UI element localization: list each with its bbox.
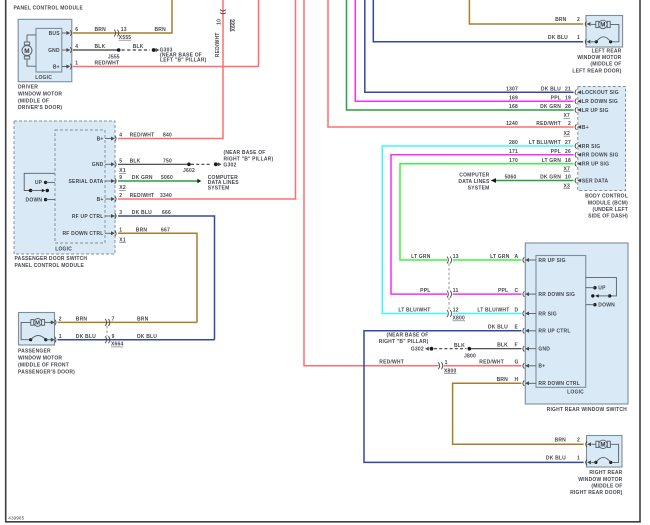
wire DK GRN 168 to BCM LR UP SIG xyxy=(347,0,574,110)
driver motor pin 6 connector xyxy=(62,27,78,36)
svg-text:WINDOW MOTOR: WINDOW MOTOR xyxy=(578,477,622,483)
svg-text:PPL: PPL xyxy=(551,96,561,102)
wire RED/WHT from driver B+ pin to top xyxy=(73,0,259,67)
svg-text:RR SIG: RR SIG xyxy=(538,311,556,317)
passenger module caption xyxy=(15,256,88,269)
svg-text:B+: B+ xyxy=(582,125,589,131)
svg-text:SERIAL DATA: SERIAL DATA xyxy=(69,179,104,185)
svg-text:RED/WHT: RED/WHT xyxy=(479,360,504,366)
svg-text:MODULE (BCM): MODULE (BCM) xyxy=(588,200,628,206)
BCM pin 2 B+ xyxy=(563,124,588,137)
svg-text:RR UP SIG: RR UP SIG xyxy=(582,162,609,168)
right rear motor pin 2 connector xyxy=(555,437,591,447)
wire RED/WHT 840 labels xyxy=(130,133,172,139)
right rear motor symbol M xyxy=(591,440,618,464)
svg-text:GND: GND xyxy=(48,48,60,54)
wire DK BLU RR UP CTRL row E to right rear motor xyxy=(364,325,584,463)
right rear window motor box xyxy=(587,436,623,468)
svg-text:X3: X3 xyxy=(563,183,570,189)
wire DK GRN 5060 serial data to computer data lines xyxy=(118,175,201,183)
BCM box xyxy=(578,87,626,191)
computer data lines system text right xyxy=(458,173,490,192)
BCM pin 27 RR SIG xyxy=(575,143,600,150)
svg-text:BRN: BRN xyxy=(555,437,567,443)
svg-text:X7: X7 xyxy=(563,167,570,173)
wire BLK row F GND xyxy=(454,343,521,350)
svg-text:SER DATA: SER DATA xyxy=(582,178,609,184)
BCM pin 28 LR UP SIG xyxy=(563,107,608,119)
left rear window motor box xyxy=(586,16,623,48)
right rear switch pin H connector xyxy=(523,381,580,388)
svg-text:1: 1 xyxy=(577,35,580,41)
svg-text:RED/WHT: RED/WHT xyxy=(95,61,120,67)
wire BRN to left rear motor pin 2 xyxy=(469,0,583,24)
svg-text:DOWN: DOWN xyxy=(26,197,43,203)
svg-text:BUS: BUS xyxy=(49,31,61,37)
svg-text:LT BLU/WHT: LT BLU/WHT xyxy=(529,140,561,146)
right rear switch pin F connector xyxy=(523,346,550,353)
svg-text:X2: X2 xyxy=(119,185,126,191)
svg-text:DOWN: DOWN xyxy=(598,303,615,309)
svg-text:840: 840 xyxy=(163,133,172,139)
svg-text:LOGIC: LOGIC xyxy=(35,75,52,81)
svg-text:RR DOWN SIG: RR DOWN SIG xyxy=(582,153,619,159)
right rear switch pin A connector xyxy=(523,257,566,264)
svg-text:12: 12 xyxy=(453,307,459,313)
svg-text:LR UP SIG: LR UP SIG xyxy=(582,108,609,114)
UP/DOWN switch of right rear switch xyxy=(586,278,617,309)
left rear motor pin 1 connector xyxy=(585,39,590,45)
svg-text:2: 2 xyxy=(577,17,580,23)
dashed BLK wire from G302 to J800 xyxy=(434,348,467,350)
svg-text:X664: X664 xyxy=(111,342,123,348)
svg-text:PPL: PPL xyxy=(498,288,508,294)
svg-text:UP: UP xyxy=(35,180,43,186)
left rear motor caption xyxy=(572,49,621,75)
svg-text:DK BLU: DK BLU xyxy=(76,334,96,340)
passenger motor symbol M xyxy=(21,319,51,342)
right rear switch pin C connector xyxy=(523,291,575,298)
driver window motor module box xyxy=(18,19,72,81)
svg-text:LOCKOUT SIG: LOCKOUT SIG xyxy=(582,90,619,96)
svg-text:171: 171 xyxy=(509,149,518,155)
ground G302 left xyxy=(214,150,274,168)
svg-text:X7: X7 xyxy=(563,113,570,119)
svg-text:2: 2 xyxy=(568,121,571,127)
svg-text:PPL: PPL xyxy=(420,288,430,294)
svg-text:3340: 3340 xyxy=(160,193,172,199)
svg-text:BRN: BRN xyxy=(155,27,167,33)
svg-text:5060: 5060 xyxy=(161,175,173,181)
svg-text:BRN: BRN xyxy=(555,17,567,23)
dashed BLK wire to ground G303 xyxy=(122,49,151,51)
wire LT BLU/WHT 280 BCM RR SIG to switch D xyxy=(382,140,573,313)
svg-text:LT GRN: LT GRN xyxy=(490,254,510,260)
right rear window switch box xyxy=(525,243,628,404)
svg-text:7: 7 xyxy=(112,317,115,323)
driver motor pin 1 connector xyxy=(62,61,78,70)
svg-text:BLK: BLK xyxy=(130,159,141,165)
passenger module pin 9 connector xyxy=(105,175,126,191)
svg-text:(NEAR BASE OF: (NEAR BASE OF xyxy=(386,332,428,338)
svg-text:LEFT "B" PILLAR): LEFT "B" PILLAR) xyxy=(160,58,207,64)
svg-text:RIGHT REAR DOOR): RIGHT REAR DOOR) xyxy=(570,490,622,496)
svg-text:BLK: BLK xyxy=(133,44,144,50)
svg-text:D: D xyxy=(515,307,519,313)
svg-text:C: C xyxy=(515,288,519,294)
svg-text:DRIVER'S DOOR): DRIVER'S DOOR) xyxy=(18,105,62,111)
svg-text:COMPUTER: COMPUTER xyxy=(459,173,489,179)
svg-text:DK BLU: DK BLU xyxy=(488,325,508,331)
svg-text:1307: 1307 xyxy=(506,87,518,93)
svg-text:DK BLU: DK BLU xyxy=(132,210,152,216)
BCM caption xyxy=(585,194,628,220)
svg-text:BRN: BRN xyxy=(95,27,107,33)
svg-text:RED/WHT: RED/WHT xyxy=(130,193,155,199)
right rear switch pin G connector xyxy=(523,363,545,370)
svg-text:BRN: BRN xyxy=(136,228,148,234)
svg-text:4: 4 xyxy=(75,44,78,50)
svg-text:RIGHT "B" PILLAR): RIGHT "B" PILLAR) xyxy=(379,339,429,345)
svg-text:750: 750 xyxy=(163,159,172,165)
svg-text:1: 1 xyxy=(445,360,448,366)
svg-text:(MIDDLE OF: (MIDDLE OF xyxy=(590,62,621,68)
svg-text:X2: X2 xyxy=(563,131,570,137)
passenger module pin 4 connector xyxy=(105,133,122,142)
splice J800 xyxy=(464,347,476,359)
UP/DOWN switch of passenger module xyxy=(24,173,55,203)
wire LT GRN 170 BCM RR UP SIG to switch A xyxy=(400,158,574,260)
passenger module pin 2 connector xyxy=(105,193,122,202)
svg-text:LEFT REAR: LEFT REAR xyxy=(592,49,622,55)
wire DK GRN 5060 BCM ser data to computer data lines xyxy=(491,175,574,183)
svg-text:SYSTEM: SYSTEM xyxy=(468,186,490,192)
svg-text:RED/WHT: RED/WHT xyxy=(379,360,404,366)
right rear motor pin 1 connector xyxy=(546,456,591,466)
svg-text:B+: B+ xyxy=(53,64,60,70)
BCM pin 26 RR DOWN SIG xyxy=(575,152,618,159)
BCM pin 18 RR UP SIG xyxy=(563,161,609,173)
passenger motor pin 2 connector xyxy=(51,317,62,326)
svg-text:RED/WHT: RED/WHT xyxy=(215,32,221,57)
svg-text:280: 280 xyxy=(509,140,518,146)
svg-text:10: 10 xyxy=(216,19,222,25)
svg-text:X555: X555 xyxy=(119,35,131,41)
inline connector X664 xyxy=(105,317,123,348)
wire RED/WHT vertical to passenger switch B+ via X666 xyxy=(118,0,223,139)
svg-text:DK GRN: DK GRN xyxy=(132,175,153,181)
svg-text:439985: 439985 xyxy=(8,516,24,521)
wire LT BLU/WHT switch side row D xyxy=(398,307,521,313)
svg-text:(UNDER LEFT: (UNDER LEFT xyxy=(592,207,628,213)
svg-text:G302: G302 xyxy=(411,346,424,352)
wire PPL switch side row C xyxy=(420,288,521,294)
svg-text:PANEL CONTROL MODULE: PANEL CONTROL MODULE xyxy=(14,5,84,11)
svg-text:DRIVER: DRIVER xyxy=(18,85,38,91)
left rear motor pin 2 connector xyxy=(585,21,590,27)
svg-text:J555: J555 xyxy=(108,54,120,60)
svg-text:10: 10 xyxy=(565,175,571,181)
BCM pin 10 SER DATA xyxy=(563,178,608,190)
svg-text:RF UP CTRL: RF UP CTRL xyxy=(72,214,104,220)
svg-text:PANEL CONTROL MODULE: PANEL CONTROL MODULE xyxy=(15,263,85,269)
svg-text:M: M xyxy=(600,442,605,449)
svg-text:LT BLU/WHT: LT BLU/WHT xyxy=(477,307,509,313)
svg-text:B+: B+ xyxy=(97,197,104,203)
computer data lines system text left xyxy=(208,175,240,192)
driver motor symbol M xyxy=(22,35,36,66)
svg-text:9: 9 xyxy=(112,334,115,340)
splice J555 xyxy=(108,48,121,60)
passenger motor caption xyxy=(18,348,75,375)
dashed BLK wire to ground G302 xyxy=(191,163,211,165)
svg-text:LR DOWN SIG: LR DOWN SIG xyxy=(582,99,618,105)
wire DK BLU to left rear motor pin 1 xyxy=(373,0,583,42)
driver motor caption xyxy=(18,85,62,112)
svg-text:(MIDDLE OF: (MIDDLE OF xyxy=(18,98,49,104)
svg-text:DK BLU: DK BLU xyxy=(546,456,566,462)
svg-text:M: M xyxy=(24,48,30,55)
right rear switch pin E connector xyxy=(523,328,571,335)
passenger module pin name labels xyxy=(62,136,103,237)
svg-text:11: 11 xyxy=(453,288,459,294)
passenger motor pin 1 connector xyxy=(51,334,62,343)
svg-text:LT BLU/WHT: LT BLU/WHT xyxy=(398,307,430,313)
wire LT GRN switch side row A xyxy=(411,254,521,260)
svg-text:26: 26 xyxy=(565,149,571,155)
svg-text:PASSENGER DOOR SWITCH: PASSENGER DOOR SWITCH xyxy=(15,256,88,262)
svg-text:PASSENGER: PASSENGER xyxy=(18,348,51,354)
svg-text:SYSTEM: SYSTEM xyxy=(208,185,230,191)
ground G303 xyxy=(152,48,207,64)
svg-text:BLK: BLK xyxy=(497,343,508,349)
svg-text:PASSENGER'S DOOR): PASSENGER'S DOOR) xyxy=(18,369,75,375)
svg-text:21: 21 xyxy=(565,87,571,93)
passenger module pin 3 connector xyxy=(105,210,122,219)
svg-text:RR UP SIG: RR UP SIG xyxy=(538,258,565,264)
svg-text:LOGIC: LOGIC xyxy=(567,390,584,396)
svg-text:1240: 1240 xyxy=(506,121,518,127)
svg-text:5: 5 xyxy=(119,159,122,165)
passenger window motor box xyxy=(19,313,55,346)
svg-text:RR UP CTRL: RR UP CTRL xyxy=(538,329,570,335)
wire BRN from driver BUS pin to top via X555 xyxy=(73,0,172,33)
svg-text:(NEAR BASE OF: (NEAR BASE OF xyxy=(224,150,266,156)
svg-text:SIDE OF DASH): SIDE OF DASH) xyxy=(588,214,628,220)
wire BRN RR DOWN CTRL row H to right rear motor xyxy=(453,377,584,444)
inline connector X666 xyxy=(215,10,237,57)
svg-text:J602: J602 xyxy=(183,168,195,174)
wire BLK 750 from GND pin xyxy=(118,159,189,165)
svg-text:X1: X1 xyxy=(119,237,126,243)
svg-text:RR DOWN CTRL: RR DOWN CTRL xyxy=(538,381,580,387)
svg-text:F: F xyxy=(515,343,518,349)
svg-text:170: 170 xyxy=(509,158,518,164)
svg-text:G302: G302 xyxy=(223,162,236,168)
svg-text:168: 168 xyxy=(509,104,518,110)
svg-text:H: H xyxy=(515,377,519,383)
svg-text:DATA LINES: DATA LINES xyxy=(458,179,490,185)
inline connector X800 rows A C D xyxy=(447,254,465,322)
svg-text:RIGHT REAR: RIGHT REAR xyxy=(589,470,622,476)
svg-text:13: 13 xyxy=(453,254,459,260)
svg-text:666: 666 xyxy=(162,210,171,216)
svg-text:M: M xyxy=(600,22,605,29)
svg-text:BLK: BLK xyxy=(454,343,465,349)
wire DK BLU 666 RF UP CTRL to passenger motor xyxy=(118,210,215,340)
wire RED/WHT vertical to right rear switch B+ xyxy=(304,0,438,366)
svg-text:WINDOW MOTOR: WINDOW MOTOR xyxy=(577,55,621,61)
svg-text:2: 2 xyxy=(577,437,580,443)
svg-text:G: G xyxy=(515,360,519,366)
svg-text:RR SIG: RR SIG xyxy=(582,144,600,150)
svg-text:1: 1 xyxy=(577,456,580,462)
wire PPL 169 to BCM LR DOWN SIG xyxy=(355,0,573,102)
svg-text:667: 667 xyxy=(161,228,170,234)
svg-text:RF DOWN CTRL: RF DOWN CTRL xyxy=(62,231,103,237)
svg-text:(MIDDLE OF FRONT: (MIDDLE OF FRONT xyxy=(18,362,69,368)
driver motor pin 4 connector xyxy=(62,44,78,53)
wire BLK from driver GND pin xyxy=(73,44,144,50)
svg-text:M: M xyxy=(35,321,40,327)
svg-text:19: 19 xyxy=(565,96,571,102)
svg-text:28: 28 xyxy=(565,104,571,110)
svg-text:DK GRN: DK GRN xyxy=(540,175,561,181)
BCM pin 19 LR DOWN SIG xyxy=(575,99,618,106)
svg-text:X800: X800 xyxy=(453,316,465,322)
svg-text:DK BLU: DK BLU xyxy=(137,334,157,340)
wire DK BLU passenger motor pin 1 xyxy=(58,334,215,340)
passenger module pin 5 connector xyxy=(105,159,126,175)
right rear motor caption xyxy=(570,470,623,496)
svg-text:E: E xyxy=(515,325,519,331)
wire PPL 171 BCM RR DOWN SIG to switch C xyxy=(391,149,574,294)
passenger door switch module box xyxy=(14,121,115,254)
svg-text:X666: X666 xyxy=(231,19,237,31)
svg-text:PPL: PPL xyxy=(551,149,561,155)
BCM pin 21 LOCKOUT SIG xyxy=(575,90,619,97)
passenger module pin 1 connector xyxy=(105,228,126,244)
svg-text:X800: X800 xyxy=(444,368,456,374)
wire BRN passenger motor pin 2 xyxy=(58,317,197,323)
svg-text:27: 27 xyxy=(565,140,571,146)
svg-text:RIGHT REAR WINDOW SWITCH: RIGHT REAR WINDOW SWITCH xyxy=(547,407,628,413)
svg-text:DK BLU: DK BLU xyxy=(548,35,568,41)
wire BRN 667 RF DOWN CTRL to passenger motor xyxy=(118,228,197,323)
svg-text:BRN: BRN xyxy=(76,317,88,323)
svg-text:RIGHT "B" PILLAR): RIGHT "B" PILLAR) xyxy=(224,157,274,163)
wire RED/WHT 1240 to BCM B+ xyxy=(328,0,574,127)
svg-text:UP: UP xyxy=(598,286,606,292)
right rear switch pin D connector xyxy=(523,311,557,318)
svg-text:A: A xyxy=(515,254,519,260)
svg-text:LT GRN: LT GRN xyxy=(542,158,562,164)
ground G302 right xyxy=(379,332,434,352)
svg-text:(MIDDLE OF: (MIDDLE OF xyxy=(591,483,622,489)
splice J602 xyxy=(183,163,195,174)
driver motor pin labels xyxy=(35,31,60,81)
svg-text:GND: GND xyxy=(538,347,550,353)
svg-text:BRN: BRN xyxy=(137,317,149,323)
svg-text:LT GRN: LT GRN xyxy=(411,254,431,260)
svg-text:J800: J800 xyxy=(464,353,476,359)
svg-text:RED/WHT: RED/WHT xyxy=(130,133,155,139)
svg-text:X1: X1 xyxy=(119,168,126,174)
left rear motor symbol M xyxy=(591,20,619,43)
svg-text:B+: B+ xyxy=(538,364,545,370)
svg-text:LEFT REAR DOOR): LEFT REAR DOOR) xyxy=(572,68,621,74)
svg-text:18: 18 xyxy=(565,158,571,164)
svg-text:B+: B+ xyxy=(97,136,104,142)
wire RED/WHT row G B+ with X800 xyxy=(379,360,521,375)
svg-text:13: 13 xyxy=(121,27,127,33)
svg-text:DK BLU: DK BLU xyxy=(541,87,561,93)
svg-text:DK GRN: DK GRN xyxy=(540,104,561,110)
svg-text:LOGIC: LOGIC xyxy=(55,246,72,252)
svg-text:BLK: BLK xyxy=(95,44,106,50)
svg-text:BODY CONTROL: BODY CONTROL xyxy=(585,194,628,200)
svg-text:BRN: BRN xyxy=(497,377,509,383)
svg-text:4: 4 xyxy=(119,133,122,139)
inline connector X555 xyxy=(114,27,131,41)
svg-text:169: 169 xyxy=(509,96,518,102)
svg-text:WINDOW MOTOR: WINDOW MOTOR xyxy=(18,355,62,361)
wire RED/WHT 3340 to top xyxy=(118,0,296,199)
svg-text:WINDOW MOTOR: WINDOW MOTOR xyxy=(18,91,62,97)
svg-text:5060: 5060 xyxy=(505,175,517,181)
svg-text:RED/WHT: RED/WHT xyxy=(536,121,561,127)
svg-text:GND: GND xyxy=(92,162,104,168)
wire DK BLU 1307 to BCM LOCKOUT SIG xyxy=(365,0,574,93)
svg-text:RR DOWN SIG: RR DOWN SIG xyxy=(538,292,575,298)
